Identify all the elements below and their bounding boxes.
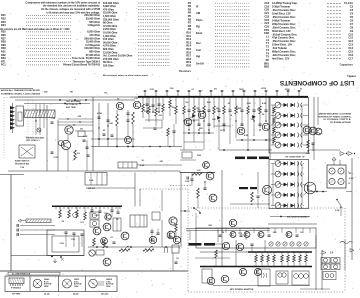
wire h146 — [91, 146, 182, 148]
diode CR8 — [252, 115, 256, 119]
svg-text:C2: C2 — [350, 5, 354, 9]
svg-text:14-365pf Tuning Cap.: 14-365pf Tuning Cap. — [272, 1, 298, 5]
svg-text:12K: 12K — [109, 123, 113, 125]
capacitor C30 stack — [127, 110, 129, 113]
svg-text:C8: C8 — [350, 25, 354, 29]
vertical wire a — [46, 105, 48, 171]
wires h247 — [88, 246, 180, 248]
AGC transistor Q22 — [101, 238, 108, 245]
svg-text:C17: C17 — [348, 56, 353, 60]
svg-text:4mf Elect. 12V: 4mf Elect. 12V — [272, 56, 290, 60]
output jacks J4 J5 — [321, 264, 330, 270]
svg-text:.001mf Ceramic Disc: .001mf Ceramic Disc — [272, 32, 298, 36]
meter cluster box — [327, 165, 346, 188]
svg-text:Capacitors: Capacitors — [340, 62, 354, 66]
svg-text:470K: 470K — [97, 112, 102, 115]
vertical wire l — [139, 189, 141, 206]
coupling capacitor C35 — [204, 187, 207, 189]
mixer transistors row — [303, 126, 311, 134]
output jacks J2 J3 — [321, 258, 330, 264]
svg-text:C7: C7 — [350, 22, 354, 26]
transistor Q18 — [239, 268, 246, 275]
svg-text:5%: 5% — [80, 129, 83, 131]
svg-text:On-Off: On-Off — [196, 62, 204, 65]
AM tuner assembly box 2 — [269, 160, 309, 209]
AC line label thin box — [8, 272, 60, 275]
IF module top view with pins — [9, 278, 24, 284]
transistor base diagram 3 — [89, 279, 98, 288]
svg-text:22K: 22K — [273, 232, 277, 234]
wire B+ feeder left — [10, 96, 138, 98]
output jack box J6 — [172, 245, 179, 253]
svg-text:12K: 12K — [216, 108, 220, 110]
4th IF transformer core marks — [239, 187, 248, 189]
neutralizing box — [182, 152, 192, 158]
svg-text:OSC CONV L1: OSC CONV L1 — [26, 140, 40, 142]
svg-text:2.2K: 2.2K — [95, 215, 100, 217]
svg-text:TOP VIEW: TOP VIEW — [12, 294, 21, 296]
svg-text:Figures: Figures — [347, 75, 356, 78]
wire h133 — [183, 132, 214, 134]
bus bypass capacitor stubs — [144, 90, 301, 96]
lamp PL3 — [103, 258, 111, 266]
wire h252 thin — [200, 251, 248, 253]
wire h142 — [184, 141, 204, 143]
components between multiplex buses — [255, 252, 308, 267]
resistor R42 — [175, 224, 178, 232]
dashed shield line — [170, 185, 192, 187]
wire h191 right — [308, 191, 327, 193]
svg-text:220pf Ceramic Disc: 220pf Ceramic Disc — [272, 22, 296, 26]
bypass caps below audio bus — [91, 206, 93, 210]
svg-text:.05mf Ceramic Disc: .05mf Ceramic Disc — [272, 15, 296, 19]
coupling capacitor C34 — [191, 178, 194, 180]
vertical wire c — [67, 135, 69, 141]
volume control R17 — [121, 232, 129, 240]
svg-text:1.5K: 1.5K — [71, 239, 76, 241]
IF transistor Q5 — [237, 127, 245, 135]
ticks under audio bus — [56, 206, 120, 209]
decoupling caps — [103, 133, 106, 135]
svg-text:R20: R20 — [186, 64, 191, 68]
transistor base diagram 1 — [33, 279, 42, 288]
transformer box T7 — [258, 269, 270, 286]
svg-text:5%: 5% — [185, 102, 188, 104]
vertical wire p — [235, 240, 237, 267]
svg-text:22K: 22K — [78, 116, 82, 118]
capacitor C22 — [186, 177, 188, 180]
svg-text:.02mf Ceramic Disc: .02mf Ceramic Disc — [272, 25, 296, 29]
svg-text:AM-FM ALL TRANSISTOR RECEIVER: AM-FM ALL TRANSISTOR RECEIVER — [1, 89, 40, 92]
vertical wire f — [107, 103, 109, 147]
svg-text:6.8K: 6.8K — [140, 165, 145, 167]
driver transistor Q13 — [169, 217, 177, 225]
capacitor C31 — [251, 243, 254, 245]
interstage transformer T5 box — [130, 215, 147, 227]
svg-text:30mf Elect. 12V: 30mf Elect. 12V — [272, 29, 291, 33]
svg-text:NO SIGNAL APPLIED: NO SIGNAL APPLIED — [330, 121, 351, 124]
svg-text:3.3V: 3.3V — [197, 170, 202, 172]
dark bars in sub box — [189, 243, 202, 246]
svg-text:100mf Elect. 15V: 100mf Elect. 15V — [272, 43, 292, 47]
electrolytic capacitor C28 — [152, 97, 154, 112]
jack arrows — [322, 251, 326, 255]
vertical wire g — [269, 97, 271, 160]
svg-text:C12: C12 — [348, 39, 353, 43]
balance control R36 potentiometer — [143, 249, 154, 252]
vertical wire m — [161, 190, 163, 211]
wire h120 — [184, 119, 199, 121]
driver transistor Q14 — [167, 231, 175, 239]
caps on audio wires — [151, 230, 154, 232]
svg-text:8.2K: 8.2K — [185, 181, 190, 183]
sub chassis box top — [268, 223, 317, 225]
svg-text:C1,C1A: C1,C1A — [344, 1, 353, 5]
driver transistor Q25 — [173, 236, 180, 243]
vertical wire r — [315, 235, 317, 290]
svg-text:Q10-Q12: Q10-Q12 — [101, 294, 108, 296]
resistor R35 — [132, 112, 135, 124]
svg-text:2.2K: 2.2K — [335, 210, 340, 212]
svg-text:10MF: 10MF — [150, 240, 156, 242]
meter lamp M4 — [338, 178, 344, 184]
svg-text:.5mf Tubular: .5mf Tubular — [272, 46, 287, 50]
component list column 4: resistors R21-R33 — [0, 13, 101, 66]
dial lamp PL1 — [103, 223, 111, 231]
svg-text:OSC ADJ 98MC: OSC ADJ 98MC — [66, 100, 81, 103]
svg-text:470K: 470K — [261, 87, 266, 90]
sub chassis internal ticks — [218, 228, 310, 236]
multiplex bus lower thick — [200, 266, 312, 268]
svg-text:R24: R24 — [1, 23, 6, 27]
dashed shield boundary multiplex — [139, 189, 141, 190]
bus junction dots — [141, 96, 305, 98]
component list column 2: capacitors C18-C25, diodes CR1 CR2, coils, transformers — [196, 1, 270, 69]
3rd IF transformer core bar — [259, 157, 269, 160]
svg-text:AC LINE INTERLOCK: AC LINE INTERLOCK — [12, 273, 31, 276]
svg-text:180 Ohm: 180 Ohm — [103, 64, 114, 68]
svg-text:VIEW: VIEW — [44, 286, 49, 288]
left frame border — [10, 175, 12, 272]
svg-text:All resistance values in ohms: All resistance values in ohms unless not… — [103, 74, 149, 77]
resistor R23 — [197, 188, 200, 198]
svg-text:ARROW INDICATES CLOCKWISE: ARROW INDICATES CLOCKWISE — [319, 113, 352, 116]
svg-text:Osc.: Osc. — [196, 41, 202, 45]
svg-text:22K: 22K — [44, 92, 48, 94]
svg-text:DC VOLTAGES: VTVM TO B-: DC VOLTAGES: VTVM TO B- — [323, 118, 351, 121]
svg-text:C13: C13 — [348, 43, 353, 47]
wire h216 — [270, 216, 310, 218]
tuning gang capacitor C1 rotor plates — [10, 106, 15, 130]
diode CR7 — [217, 116, 221, 120]
svg-text:6.8K: 6.8K — [306, 153, 311, 155]
resistors below bus — [59, 206, 61, 210]
wire h204 — [230, 203, 270, 205]
wire pair h228 — [186, 228, 270, 230]
audio B- bus thick — [52, 205, 122, 207]
antenna input arrows right — [340, 152, 345, 156]
band switch SW1 box — [19, 145, 35, 158]
svg-text:3-30pf Trimmer: 3-30pf Trimmer — [272, 5, 290, 9]
tuner right verticals — [313, 97, 315, 160]
resistor R25 — [251, 192, 254, 202]
svg-text:2.2K: 2.2K — [60, 243, 65, 245]
svg-text:8.2K: 8.2K — [262, 103, 267, 105]
svg-text:AM TUNER ASSEMBLY: AM TUNER ASSEMBLY — [287, 216, 310, 219]
tuner 1 inner verticals — [272, 105, 274, 145]
transistor Q19 — [254, 268, 261, 275]
vertical wire h — [297, 162, 299, 208]
svg-text:5%: 5% — [214, 89, 217, 91]
svg-text:PC1: PC1 — [1, 64, 6, 67]
junction dots h146 — [149, 146, 151, 148]
wire h131 — [75, 130, 93, 132]
coupling coil L5 — [164, 247, 168, 253]
tone control R33 potentiometer — [119, 249, 130, 252]
svg-text:ROTATION OF TUNING CONTROL: ROTATION OF TUNING CONTROL — [318, 115, 352, 118]
wire h244 — [210, 243, 222, 245]
wire h188 — [88, 187, 135, 189]
wire h150 left — [180, 149, 203, 151]
meter lamp M3 — [329, 178, 335, 184]
svg-text:VIEW: VIEW — [74, 286, 79, 288]
svg-text:.05mf Ceramic Disc: .05mf Ceramic Disc — [272, 39, 296, 43]
resistor R41 — [215, 250, 218, 258]
svg-text:PM: PM — [196, 55, 200, 59]
svg-text:1 Megohm: 1 Megohm — [87, 23, 100, 27]
sub chassis small transistors — [230, 232, 292, 238]
volume control shielded cable hatched — [26, 219, 51, 223]
components under lamps — [93, 238, 96, 246]
meter lamp M1 — [329, 168, 335, 174]
wire h258 — [195, 257, 230, 259]
IF takeoff coil box — [78, 131, 85, 137]
capacitor C37 — [173, 130, 176, 132]
svg-text:2.2K: 2.2K — [150, 89, 155, 91]
multiplex transistor Q16 — [222, 242, 229, 249]
svg-text:Q1-Q5: Q1-Q5 — [44, 294, 49, 296]
electrolytic capacitor C29 — [158, 97, 160, 112]
svg-text:5%: 5% — [77, 153, 80, 155]
svg-text:BAND SWITCH: BAND SWITCH — [15, 160, 30, 163]
wire h126 — [214, 125, 231, 127]
AF transistor Q12 — [229, 219, 236, 226]
switch circle SW4 — [89, 250, 95, 256]
trimmer pot small circle — [73, 213, 78, 218]
svg-text:LIST OF COMPONENTS: LIST OF COMPONENTS — [279, 79, 354, 86]
svg-text:12K: 12K — [251, 119, 255, 121]
svg-text:C10: C10 — [348, 32, 353, 36]
dial lamp PL4 — [105, 214, 111, 220]
tuner 2 wires to transistor — [304, 185, 308, 187]
svg-text:2.2K: 2.2K — [247, 103, 252, 105]
vertical wire b — [57, 120, 59, 171]
transistor base diagram 2 — [63, 279, 72, 288]
IF transistor Q6 — [262, 123, 270, 131]
buffer transistor Q23b — [203, 162, 210, 169]
band change switch SW5 — [336, 199, 338, 201]
speaker wire squiggle — [340, 241, 353, 243]
svg-text:.01mf Ceramic Disc: .01mf Ceramic Disc — [272, 8, 296, 12]
svg-text:VIEW: VIEW — [106, 286, 111, 288]
resistor R5 — [74, 150, 77, 160]
audio output transistor Q8 — [133, 101, 140, 108]
verticals between shield dashes — [35, 104, 37, 136]
AM converter transistor Q15 large — [304, 182, 316, 194]
wire h160b — [180, 159, 196, 161]
cable wires to pots — [20, 225, 55, 227]
multiplex transistor Q17 — [236, 243, 243, 250]
mixer bypass capacitor — [312, 142, 315, 144]
svg-text:to B minus and may vary 15% wi: to B minus and may vary 15% with line vo… — [46, 11, 100, 14]
wire h255 left — [11, 255, 84, 257]
small box — [96, 250, 104, 255]
svg-text:8.2K: 8.2K — [244, 135, 249, 137]
output transistor Q20 — [207, 277, 215, 285]
transformer box T8 — [276, 271, 288, 284]
frame bottom line — [0, 270, 188, 272]
cable bundle wires — [58, 118, 93, 120]
vertical x87 — [86, 140, 88, 171]
driver transformer T4 box — [118, 162, 137, 168]
svg-text:Resistors: Resistors — [179, 69, 191, 73]
coupling box — [152, 212, 160, 220]
bypass capacitors on verticals — [51, 121, 54, 123]
svg-text:2.2K: 2.2K — [83, 136, 88, 138]
svg-text:10MF: 10MF — [236, 108, 242, 110]
caps row 2 — [65, 231, 68, 233]
gang capacitor stem wire — [12, 103, 14, 133]
drops from h228 — [189, 231, 191, 241]
svg-text:2.2K: 2.2K — [54, 157, 59, 159]
switch SW3 — [193, 207, 195, 209]
svg-text:SW2: SW2 — [264, 66, 270, 69]
bus drops with resistors 143-178 — [142, 97, 178, 126]
svg-text:5%: 5% — [104, 93, 107, 95]
svg-text:C4: C4 — [350, 12, 354, 16]
output boxes below bus — [202, 269, 212, 283]
AF transistor Q9 — [206, 172, 214, 180]
svg-text:RF TRIM FM: RF TRIM FM — [66, 104, 78, 106]
padder trimmer C6 — [58, 140, 63, 145]
meter lamp M2 — [338, 168, 344, 174]
vertical wire i — [221, 170, 223, 266]
vertical wire s — [321, 250, 323, 290]
mixer bias resistor — [307, 140, 310, 148]
svg-text:C11: C11 — [348, 36, 353, 40]
wire h128 — [143, 127, 162, 129]
diode CR6 — [192, 114, 196, 118]
svg-text:.02mf Ceramic Disc: .02mf Ceramic Disc — [272, 53, 296, 57]
wire h289 right — [300, 288, 330, 290]
T4 secondary wire — [137, 164, 182, 166]
wire h140 — [236, 139, 272, 141]
svg-text:C3: C3 — [350, 8, 354, 12]
FM tuner assembly box 1 — [269, 98, 309, 154]
svg-text:2.2K: 2.2K — [349, 178, 354, 180]
IF drops second level capacitors — [183, 120, 266, 130]
caption underline — [0, 88, 33, 90]
vertical wire q — [264, 240, 266, 252]
output transformer box T9 — [292, 271, 309, 285]
oscillator transistor Q2 — [61, 140, 70, 149]
svg-text:5-80pf Trimmer: 5-80pf Trimmer — [272, 18, 290, 22]
dashed shield box FM front end — [3, 98, 5, 159]
vertical wire j — [257, 172, 259, 194]
vertical wire e — [98, 103, 100, 147]
tuner 1 rows of sections — [271, 102, 308, 148]
wire h211 — [180, 210, 190, 212]
front end section bottom wire — [8, 170, 93, 172]
vertical wire d — [92, 97, 94, 171]
svg-text:5%: 5% — [172, 107, 175, 109]
svg-text:47pf Ceramic Disc: 47pf Ceramic Disc — [272, 36, 295, 40]
IF bus drops x184-266 — [183, 97, 268, 150]
resistor R34 — [116, 110, 118, 114]
vertical wire t — [344, 240, 346, 270]
component list column 1: capacitors C1-C17 — [272, 1, 354, 66]
svg-text:C5: C5 — [350, 15, 354, 19]
B+ supply bus — [138, 96, 308, 98]
wire h150 to right — [308, 149, 340, 151]
tuner 2 rows of sections — [271, 161, 304, 209]
capacitor C24 — [257, 195, 260, 197]
vertical wire n — [180, 173, 182, 248]
wire h150 right — [219, 149, 272, 151]
tone switch box SW2 — [85, 173, 107, 186]
thermistor RT1 — [125, 137, 132, 144]
ferrite rod antenna L1 hatched — [24, 110, 55, 118]
RF amplifier transistor Q1 — [65, 126, 73, 134]
trimmer capacitor C2 — [37, 128, 41, 132]
svg-text:ANT TRIM: ANT TRIM — [66, 106, 76, 109]
changer terminals — [51, 256, 53, 258]
right edge vertical wire — [351, 158, 353, 260]
phone jack box — [323, 272, 336, 280]
electrolytic capacitor C27 — [146, 97, 148, 112]
svg-text:22K: 22K — [199, 128, 203, 130]
svg-text:Printed Circuit Board 76-7534-: Printed Circuit Board 76-7534-03 — [63, 64, 101, 67]
component list column 3: resistors R1-R20 — [103, 1, 192, 77]
svg-text:AM: AM — [196, 11, 200, 15]
svg-text:6.8K: 6.8K — [89, 180, 94, 182]
svg-text:8.2K: 8.2K — [144, 111, 149, 113]
svg-text:C9: C9 — [350, 29, 354, 33]
svg-text:MPX STEREO ADAPTER: MPX STEREO ADAPTER — [230, 288, 254, 291]
multiplex bus upper thick — [248, 251, 312, 253]
driver transistor Q24 — [149, 236, 156, 243]
svg-text:SCHEMATIC MODEL T-1200 CHASS: SCHEMATIC MODEL T-1200 CHASSIS — [1, 92, 41, 95]
step wire y120 — [145, 119, 162, 121]
component list notes paragraph — [25, 1, 100, 14]
resistor R22 — [192, 173, 202, 176]
meter cluster top feed — [333, 160, 335, 165]
tuner 2 inner verticals — [272, 164, 274, 206]
svg-text:680pf Ceramic Disc: 680pf Ceramic Disc — [272, 50, 296, 54]
vertical wire k — [134, 173, 136, 207]
dial lamp PL2 — [93, 227, 101, 235]
svg-text:10mf Elect. 12V: 10mf Elect. 12V — [272, 12, 291, 16]
svg-text:C14: C14 — [348, 46, 353, 50]
svg-text:Q6-Q9: Q6-Q9 — [73, 294, 78, 296]
AF transistor Q10 — [209, 194, 217, 202]
svg-text:Parts: Parts — [196, 18, 203, 22]
base diagram strip outer box — [5, 276, 117, 292]
audio output transistor Q7 — [116, 102, 123, 109]
IF transistor Q3 — [184, 118, 192, 126]
wire h171 mid — [93, 170, 180, 172]
detector transistor Q11 — [262, 185, 271, 194]
